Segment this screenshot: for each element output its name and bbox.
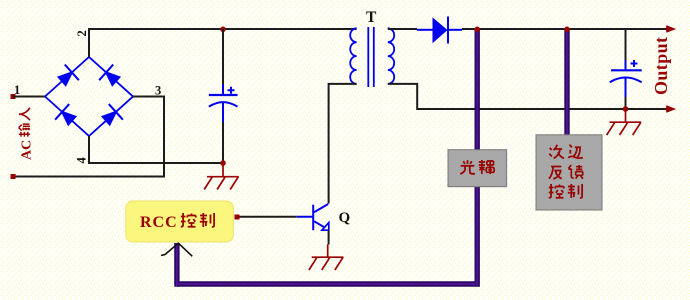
junction dot at cap bottom (220, 160, 226, 166)
capacitor C2 lead bottom (625, 79, 627, 98)
diode D1 (top-left edge) (59, 65, 79, 85)
capacitor C1 lead bottom (222, 103, 224, 123)
transistor Q1 (297, 204, 329, 230)
svg-text:AC: AC (20, 140, 35, 160)
port marker RCC output (235, 215, 240, 220)
svg-text:Output: Output (651, 37, 671, 95)
transformer core (368, 27, 374, 87)
transformer secondary winding (388, 28, 394, 84)
diode D4 (bottom-right edge) (103, 104, 123, 124)
ground G2 (emitter) (309, 245, 344, 271)
port marker AC input bottom (11, 174, 16, 179)
transformer primary winding (350, 28, 356, 84)
RCC control box (126, 201, 234, 242)
thick feedback wire 2 (secondary control) (564, 30, 569, 136)
svg-text:T: T (366, 9, 377, 26)
svg-text:3: 3 (155, 84, 161, 98)
diode D3 (bottom-left edge) (55, 104, 75, 124)
svg-text:RCC: RCC (140, 214, 178, 231)
wire secondary top to output (top rail) (388, 28, 417, 30)
diode D5 (output rectifier) (417, 17, 462, 44)
diode D2 (top-right edge) (99, 65, 119, 85)
thick feedback wire (opto path) (177, 30, 477, 284)
output capacitor C2 lead top (625, 29, 627, 60)
svg-text:Q: Q (339, 210, 351, 226)
wire RCC to base (240, 216, 297, 218)
ground G3 (output) (607, 110, 642, 136)
junction dot purple bar 1 (474, 27, 480, 33)
wire node3 right, down, left to AC port 2 (13, 97, 164, 177)
wire node2 to transformer primary top (89, 29, 357, 57)
capacitor C2 plates (611, 69, 642, 71)
svg-text:4: 4 (75, 157, 89, 164)
ground G1 (204, 164, 239, 190)
arrow into RCC box (161, 243, 192, 256)
wire node4 down and right to cap bottom (89, 136, 223, 163)
capacitor C1 lead top (222, 29, 224, 84)
port marker AC input top (11, 94, 16, 99)
capacitor C1 plates (209, 94, 238, 96)
wire secondary bottom to output low rail (388, 84, 668, 109)
wire primary bottom to collector (329, 84, 357, 204)
wire emitter to ground (328, 230, 330, 244)
port arrow output top (667, 26, 675, 31)
port arrow output low (667, 106, 675, 111)
optocoupler box 光耦 (448, 150, 507, 187)
wire bridge diamond edges (45, 57, 133, 136)
secondary feedback control box 次边反馈控制 (536, 135, 602, 210)
capacitor C1 plus sign (228, 87, 235, 94)
junction dot at cap top (220, 27, 226, 33)
AC输入 label (19, 108, 35, 160)
transistor emitter arrow (322, 223, 329, 231)
junction dot output low (623, 106, 629, 112)
wire port to node 1 (13, 96, 45, 98)
capacitor C2 plus sign (631, 60, 638, 67)
svg-text:1: 1 (14, 83, 20, 97)
junction dot purple bar 2 (564, 27, 570, 33)
svg-text:2: 2 (75, 30, 89, 36)
